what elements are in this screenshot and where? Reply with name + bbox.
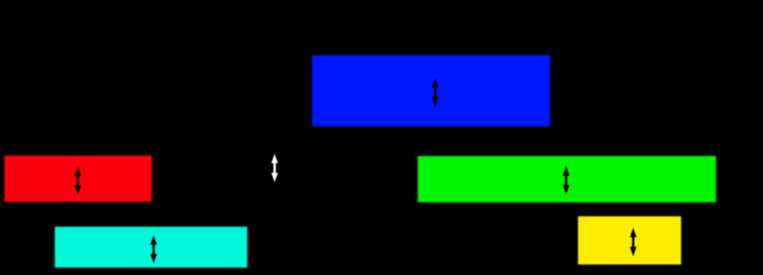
arrow in yellow bar (630, 228, 637, 256)
cyan bar (55, 227, 248, 268)
arrow in cyan bar (150, 235, 157, 263)
blue bar (312, 55, 550, 126)
arrow in green bar (563, 166, 570, 194)
green bar (418, 156, 716, 202)
white arrow between red and green bars (271, 154, 278, 182)
red bar (4, 156, 151, 202)
arrow in red bar (75, 167, 82, 195)
yellow bar (578, 216, 681, 264)
arrow in blue bar (432, 78, 439, 106)
